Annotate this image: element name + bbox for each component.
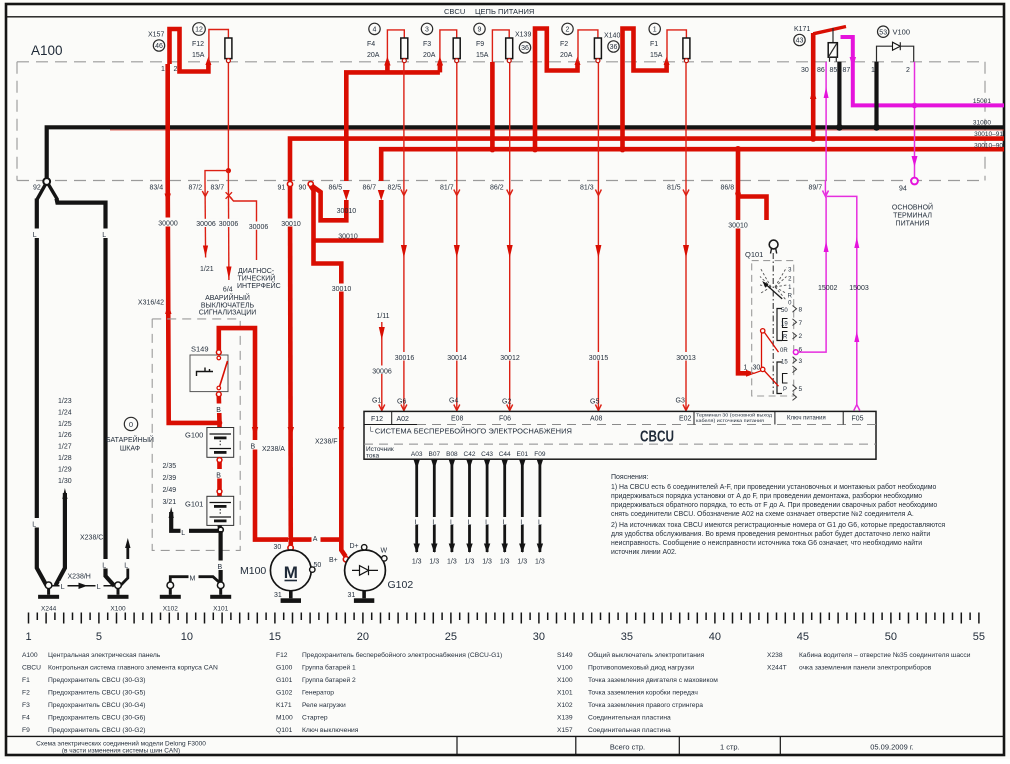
wire 83/7 drop to 6/4 hazard switch ref: [226, 181, 232, 281]
svg-text:ТЕРМИНАЛ: ТЕРМИНАЛ: [893, 213, 932, 220]
starter M100 pin30 ring: [288, 538, 294, 551]
wire 81/7 G4 drop to CBCU: [454, 63, 460, 411]
svg-text:15002: 15002: [818, 285, 838, 292]
svg-text:X102: X102: [557, 702, 573, 709]
connector X157 circled 46: [153, 40, 164, 51]
svg-text:1/27: 1/27: [58, 444, 72, 451]
svg-text:X101: X101: [213, 606, 229, 613]
K171 pin30 wire to bus 30010-91: [811, 33, 816, 139]
svg-text:1/29: 1/29: [58, 466, 72, 473]
G102 pin W ring: [381, 548, 388, 562]
svg-text:30: 30: [801, 67, 809, 74]
svg-text:B07: B07: [429, 451, 441, 458]
junction dot X139 feeder on bus: [532, 146, 538, 152]
Q101 dashed box: [752, 261, 794, 396]
K171 pin 85 wire black to bus 31000: [837, 62, 841, 128]
svg-text:Ключ выключения: Ключ выключения: [302, 727, 359, 734]
diode V100 circled 53: [878, 26, 889, 37]
bus 31000 black: [47, 127, 1004, 181]
svg-text:91: 91: [278, 185, 286, 192]
svg-text:ДИАГНОС-: ДИАГНОС-: [238, 268, 275, 275]
svg-text:30014: 30014: [447, 355, 467, 362]
svg-text:87: 87: [843, 67, 851, 74]
big arrow down at 86/7 below line: [378, 190, 385, 201]
ground terminal X101: [210, 582, 231, 613]
svg-text:CBCU: CBCU: [444, 7, 465, 16]
svg-text:E02: E02: [679, 416, 692, 423]
svg-text:85: 85: [830, 67, 838, 74]
svg-text:G3: G3: [676, 398, 685, 405]
svg-text:9: 9: [478, 27, 482, 34]
fuse F9 symbol: [506, 38, 513, 63]
svg-text:кабеля) источника питания: кабеля) источника питания: [696, 418, 765, 423]
svg-text:30010: 30010: [281, 221, 301, 228]
junction 86/8 below line with stub hook: [735, 191, 766, 220]
svg-text:L: L: [538, 520, 542, 527]
arrow down on pin87 magenta: [850, 57, 856, 68]
svg-text:30: 30: [274, 544, 282, 551]
svg-text:F12: F12: [276, 652, 288, 659]
svg-text:1/3: 1/3: [535, 559, 545, 566]
svg-text:86/5: 86/5: [329, 185, 343, 192]
V100 wire and diode symbol: [877, 42, 914, 62]
svg-text:31: 31: [348, 592, 356, 599]
svg-text:F09: F09: [534, 451, 546, 458]
K171 pin 87 wire magenta to bus 15001: [841, 35, 853, 39]
svg-text:CBCU: CBCU: [22, 665, 41, 672]
notes paragraph 1: [611, 483, 937, 518]
CBCU pin cell labels F12 A02 E08 F06 A08 E02: [371, 416, 692, 424]
svg-text:30000: 30000: [158, 221, 178, 228]
fuse F3 circled 3: [421, 23, 432, 34]
arrow down marker on X238/F wire: [338, 427, 344, 438]
svg-text:1/11: 1/11: [376, 313, 389, 320]
thick feeder X140 jumper to F1: [623, 29, 667, 150]
connector X140 circled 36: [608, 41, 619, 52]
label 30010 on X238/F drop: [331, 284, 352, 294]
CBCU source wire C44: [500, 459, 510, 565]
battery G101: [207, 496, 234, 525]
pin arrow up at F1 input: [664, 57, 670, 66]
pin labels along A100 lower dashed edge: [33, 185, 822, 192]
svg-text:для удобства обслуживания. Во: для удобства обслуживания. Во время пров…: [611, 530, 930, 538]
svg-text:0R: 0R: [780, 348, 788, 354]
label ДИАГНОСТИЧЕСКИЙ ИНТЕРФЕЙС: [237, 268, 281, 290]
svg-text:15A: 15A: [650, 52, 663, 59]
svg-text:CBCU: CBCU: [640, 429, 674, 446]
wire branch 83/7 to diagnostic interface: [230, 197, 257, 260]
svg-text:1/3: 1/3: [465, 559, 475, 566]
svg-text:очка заземления панели электро: очка заземления панели электроприборов: [799, 664, 932, 672]
svg-text:1/3: 1/3: [517, 559, 527, 566]
V100 pin labels 1 2: [871, 67, 910, 74]
svg-text:25: 25: [445, 631, 457, 643]
wire 81/5 G3 drop to CBCU: [683, 63, 689, 411]
svg-text:0: 0: [129, 420, 133, 429]
svg-text:10: 10: [181, 631, 193, 643]
svg-text:15A: 15A: [192, 52, 205, 59]
svg-text:G102: G102: [276, 690, 293, 697]
Q101 position digits 3 2 1 R 0: [788, 268, 793, 307]
svg-text:86: 86: [817, 67, 825, 74]
wire branch y240.5 to 86/7: [314, 200, 382, 241]
svg-text:30006: 30006: [372, 368, 392, 375]
svg-text:50: 50: [885, 631, 897, 643]
svg-text:1/30: 1/30: [58, 478, 72, 485]
M100 ground 31: [274, 591, 301, 603]
label B on X101 wire: [216, 561, 225, 572]
pin 90 ring: [308, 181, 313, 186]
svg-text:L: L: [97, 584, 101, 591]
pin 91 ring: [287, 181, 292, 186]
svg-text:L: L: [102, 232, 106, 239]
stub wire X238/C into X100: [121, 538, 131, 586]
thick feeder F9 to bus 30010-90: [490, 62, 495, 149]
svg-text:G6: G6: [397, 399, 406, 406]
svg-text:M: M: [284, 563, 298, 582]
svg-text:Предохранитель CBCU (30-G2): Предохранитель CBCU (30-G2): [48, 727, 145, 734]
svg-text:Кабина водителя – отверстие №3: Кабина водителя – отверстие №35 соединит…: [799, 651, 971, 659]
M100 pin 50 ring: [310, 562, 322, 572]
svg-text:L: L: [102, 563, 106, 570]
arrow down marker on X238/A wire: [288, 427, 294, 438]
svg-text:тока: тока: [366, 453, 380, 460]
svg-text:G100: G100: [185, 431, 203, 440]
Q101 key symbol: [769, 240, 778, 253]
svg-text:30006: 30006: [219, 221, 239, 228]
arrow down marker on B drop: [252, 427, 258, 438]
svg-text:82/5: 82/5: [388, 185, 402, 192]
legend column 4: [767, 651, 971, 672]
fuse F12 symbol: [225, 38, 232, 63]
end arrow up at F3 input: [437, 57, 443, 73]
svg-text:3: 3: [799, 358, 803, 365]
svg-text:Предохранитель бесперебойного: Предохранитель бесперебойного электросна…: [302, 651, 502, 659]
svg-text:ПИТАНИЯ: ПИТАНИЯ: [896, 221, 930, 228]
svg-text:C42: C42: [464, 451, 476, 458]
fuse F9 circled 9: [474, 23, 485, 34]
wire 15002 magenta Q101 pin6 to 89/7: [798, 181, 826, 353]
Q101 terminal numbers 8 7 2 6 3 5: [799, 307, 803, 393]
fuse F3 symbol: [453, 38, 460, 63]
svg-text:46: 46: [155, 43, 163, 50]
svg-text:Соединительная пластина: Соединительная пластина: [588, 715, 671, 722]
label B on X238/B drop: [249, 440, 258, 451]
arrow down below 83/4: [165, 194, 171, 205]
ground wire left L to X244: [37, 199, 47, 586]
svg-text:E08: E08: [451, 416, 464, 423]
fuse F1 circled 1: [649, 23, 660, 34]
Q101 internal red link circles and diagonals: [754, 329, 779, 387]
svg-text:5: 5: [799, 386, 803, 393]
svg-text:1) На CBCU есть 6 соединителей: 1) На CBCU есть 6 соединителей A-F, при …: [611, 483, 936, 491]
svg-text:C44: C44: [499, 451, 511, 458]
svg-text:F2: F2: [560, 41, 568, 48]
svg-text:ЦЕПЬ ПИТАНИЯ: ЦЕПЬ ПИТАНИЯ: [475, 7, 534, 16]
svg-text:R: R: [788, 294, 793, 300]
svg-text:G100: G100: [276, 665, 293, 672]
svg-text:30010–90: 30010–90: [974, 143, 1003, 150]
svg-text:X139: X139: [557, 715, 573, 722]
ground terminal X100: [108, 582, 129, 613]
junction dot at G100 top: [217, 420, 223, 426]
legend column 3: [557, 651, 718, 734]
CBCU box: [364, 411, 876, 459]
svg-text:Терминал 30 (основной выход: Терминал 30 (основной выход: [696, 412, 772, 418]
labels L L on X238/H link: [60, 581, 104, 591]
battery cabinet dashed box: [152, 319, 240, 551]
svg-text:2/35: 2/35: [163, 463, 177, 470]
svg-text:A03: A03: [411, 451, 423, 458]
G102 pin D+ ring: [350, 543, 367, 550]
svg-text:L: L: [450, 520, 454, 527]
fuse F2 symbol: [594, 38, 601, 63]
svg-text:G102: G102: [388, 579, 414, 591]
arrow right into Q101 pin30: [746, 370, 756, 377]
svg-text:G5: G5: [590, 399, 599, 406]
svg-text:2: 2: [906, 67, 910, 74]
junction dot 86/8 on bus: [735, 146, 741, 152]
thick feeder X139 jumper to F2: [535, 29, 578, 150]
svg-text:Предохранитель CBCU (30-G5): Предохранитель CBCU (30-G5): [48, 690, 145, 697]
svg-text:F4: F4: [367, 41, 375, 48]
svg-text:F2: F2: [22, 690, 30, 697]
CBCU source pin labels A03..F09: [411, 451, 546, 458]
svg-text:B: B: [251, 444, 256, 451]
S149 bottom pin: [216, 392, 221, 397]
junction dot F9 feeder on bus: [489, 146, 495, 152]
svg-text:7: 7: [799, 320, 803, 327]
wire F9 input thin: [492, 30, 509, 62]
svg-text:ШКАФ: ШКАФ: [120, 446, 140, 453]
legend column 2: [276, 651, 502, 734]
label 30006 on diagnostic wire: [248, 222, 269, 232]
svg-text:X157: X157: [148, 32, 164, 39]
junction dot K171 pin30 on bus: [810, 135, 816, 141]
svg-text:30010–91: 30010–91: [974, 131, 1003, 138]
svg-text:55: 55: [973, 631, 985, 643]
label 30000: [157, 218, 179, 228]
svg-text:X244: X244: [41, 606, 57, 613]
svg-text:Предохранитель CBCU (30-G4): Предохранитель CBCU (30-G4): [48, 702, 145, 709]
svg-text:БАТАРЕЙНЫЙ: БАТАРЕЙНЫЙ: [106, 435, 154, 444]
svg-text:V100: V100: [557, 665, 573, 672]
label M on X102 link: [189, 572, 199, 583]
svg-text:неисправность. Сообщение о неи: неисправность. Сообщение о неисправности…: [611, 539, 922, 547]
battery cabinet circled 0: [124, 417, 137, 430]
svg-text:A02: A02: [397, 416, 410, 423]
svg-text:ИНТЕРФЕЙС: ИНТЕРФЕЙС: [237, 281, 281, 290]
wire G100 to G101: [217, 457, 222, 496]
svg-text:30: 30: [753, 365, 761, 372]
G102 ground 31: [348, 591, 375, 603]
Q101 center dash-dot axis: [772, 253, 774, 394]
svg-text:30016: 30016: [395, 355, 415, 362]
label 30014: [446, 352, 468, 362]
svg-text:Стартер: Стартер: [302, 715, 328, 722]
svg-text:Предохранитель CBCU (30-G3): Предохранитель CBCU (30-G3): [48, 677, 145, 684]
svg-text:L: L: [468, 520, 472, 527]
Q101 selector arm: [762, 281, 782, 299]
svg-text:A100: A100: [22, 652, 38, 659]
svg-text:1/3: 1/3: [482, 559, 492, 566]
wire F12 output down: [227, 63, 229, 171]
svg-text:81/5: 81/5: [667, 185, 681, 192]
svg-text:15: 15: [781, 359, 788, 365]
wire F3 input thin: [440, 30, 457, 62]
CBCU row Источник тока: [366, 446, 394, 460]
fuse F12 circled 12: [193, 23, 206, 36]
svg-text:1/23: 1/23: [58, 398, 72, 405]
svg-text:L: L: [485, 520, 489, 527]
junction dot on bus 15001: [912, 103, 918, 109]
junction dot X140 feeder on bus: [619, 146, 625, 152]
svg-text:придерживаться обратного поряд: придерживаться обратного порядка, то ест…: [611, 501, 937, 509]
svg-text:1/26: 1/26: [58, 432, 72, 439]
fuse F2 circled 2: [562, 23, 573, 34]
svg-text:L: L: [61, 584, 65, 591]
svg-text:L: L: [415, 520, 419, 527]
switch S149 box: [190, 355, 228, 392]
svg-text:1/3: 1/3: [412, 559, 422, 566]
label L lower on left wire: [32, 518, 41, 529]
svg-text:8: 8: [799, 307, 803, 314]
terminal 92 ring: [43, 178, 50, 185]
svg-text:D+: D+: [350, 543, 359, 550]
battery G100: [207, 428, 234, 458]
svg-text:30010: 30010: [728, 223, 748, 230]
svg-text:Всего стр.: Всего стр.: [610, 743, 645, 752]
svg-text:ОСНОВНОЙ: ОСНОВНОЙ: [892, 203, 933, 212]
svg-text:1/3: 1/3: [500, 559, 510, 566]
wire S149 top to X238/B drop: [219, 328, 288, 539]
svg-text:└ СИСТЕМА БЕСПЕРЕБОЙНОГО ЭЛЕКТ: └ СИСТЕМА БЕСПЕРЕБОЙНОГО ЭЛЕКТРОСНАБЖЕНИ…: [368, 427, 572, 436]
K171 coil: [828, 28, 837, 62]
svg-text:Генератор: Генератор: [302, 690, 334, 697]
title block: [6, 736, 1004, 755]
svg-text:30006: 30006: [249, 224, 269, 231]
arrow up on 15002: [824, 241, 829, 252]
svg-text:(в части изменения системы шин: (в части изменения системы шин CAN): [62, 748, 180, 755]
Q101 pin labels 1 30: [744, 365, 761, 372]
big arrow down at 86/5 below line: [343, 190, 350, 201]
svg-text:30010: 30010: [338, 234, 358, 241]
svg-text:X238/F: X238/F: [315, 439, 338, 446]
wire branch to pin 87/2: [205, 171, 228, 181]
svg-text:4: 4: [373, 27, 377, 34]
K171 pin labels 30 86 85 87: [801, 67, 850, 74]
svg-text:X238/C: X238/C: [80, 535, 103, 542]
svg-text:Центральная электрическая пане: Центральная электрическая панель: [48, 652, 161, 659]
svg-text:X100: X100: [110, 606, 126, 613]
wire F1 input thin: [667, 30, 686, 62]
svg-text:15: 15: [269, 631, 281, 643]
svg-text:19: 19: [781, 321, 788, 327]
svg-text:S149: S149: [557, 652, 573, 659]
CBCU source wire E01: [517, 459, 527, 565]
svg-text:1/28: 1/28: [58, 455, 72, 462]
svg-text:Общий выключатель электропитан: Общий выключатель электропитания: [588, 651, 705, 659]
S149 contact arm: [217, 356, 228, 390]
wire 87/2 drop to 1/21: [202, 181, 208, 258]
thick feeder F4/F3 from pin 86/5: [346, 72, 440, 181]
svg-text:30010: 30010: [337, 208, 357, 215]
svg-text:F4: F4: [22, 715, 30, 722]
Q101 contact group bracket upper: [777, 309, 782, 341]
svg-text:L: L: [32, 522, 36, 529]
wire pin90 main drop X238/F: [311, 186, 346, 557]
svg-text:53: 53: [879, 29, 887, 36]
svg-text:X102: X102: [163, 606, 179, 613]
svg-text:B+: B+: [329, 557, 338, 564]
svg-text:M100: M100: [276, 715, 293, 722]
svg-text:5: 5: [96, 631, 102, 643]
junction dot V100 pin1 on bus 31000: [873, 124, 880, 131]
arrow down on pin2 wire: [912, 156, 918, 167]
svg-text:G101: G101: [276, 677, 293, 684]
svg-text:E01: E01: [517, 451, 529, 458]
wire 81/3 G5 drop to CBCU: [595, 63, 601, 411]
svg-text:Схема электрических соединений: Схема электрических соединений модели De…: [36, 740, 206, 748]
svg-text:Точка заземления двигателя с м: Точка заземления двигателя с маховиком: [588, 677, 718, 684]
legend column 1: [22, 652, 218, 734]
svg-text:1/24: 1/24: [58, 409, 72, 416]
svg-text:Контрольная система главного э: Контрольная система главного элемента ко…: [48, 665, 218, 672]
svg-text:1 стр.: 1 стр.: [720, 743, 740, 752]
svg-text:15A: 15A: [476, 52, 489, 59]
svg-text:94: 94: [899, 186, 907, 193]
svg-text:Группа батарей 1: Группа батарей 1: [302, 664, 356, 672]
wire from sheets to X244 with up arrow: [56, 488, 68, 586]
chevron at F05 entry: [854, 405, 860, 411]
wire 86/2 G2 drop to CBCU: [507, 63, 513, 411]
starter M100: [270, 550, 311, 591]
Q101 terminal chevrons: [793, 306, 797, 401]
svg-text:B: B: [216, 407, 221, 414]
wire S149 bottom to G100 junction: [217, 396, 222, 428]
junction dot F12 output: [226, 168, 231, 173]
svg-text:P: P: [783, 387, 787, 393]
arrows up on 15003: [854, 237, 859, 342]
svg-text:45: 45: [797, 631, 809, 643]
label X238/H: [67, 571, 94, 581]
svg-text:G4: G4: [449, 398, 458, 405]
terminal 94 ring: [911, 178, 918, 185]
ruler scale ticks: [29, 613, 979, 624]
label 30006 on 83/7 wire: [218, 219, 239, 228]
svg-text:35: 35: [621, 631, 633, 643]
svg-text:K171: K171: [794, 26, 810, 33]
S149 manual actuator symbol: [197, 368, 214, 377]
wire pin90 branch to 86/5 loop: [312, 186, 347, 221]
pin arrow up at F12 input: [205, 57, 211, 66]
svg-text:L: L: [124, 563, 128, 570]
wire G101 B to X101: [219, 531, 223, 586]
svg-text:S149: S149: [191, 345, 209, 354]
svg-text:Q101: Q101: [745, 250, 763, 259]
svg-text:СИГНАЛИЗАЦИИ: СИГНАЛИЗАЦИИ: [199, 310, 257, 317]
title block text: [36, 740, 206, 755]
svg-text:L: L: [181, 530, 185, 537]
splice Y below 92: [37, 185, 57, 200]
svg-text:B: B: [216, 473, 221, 480]
label L on 3/21 link: [181, 527, 190, 538]
svg-text:1/25: 1/25: [58, 421, 72, 428]
svg-text:F1: F1: [22, 677, 30, 684]
junction dot pin85 on bus 31000: [836, 124, 843, 131]
svg-text:30012: 30012: [500, 355, 520, 362]
svg-text:2) На источниках тока CBCU име: 2) На источниках тока CBCU имеются регис…: [611, 522, 945, 529]
